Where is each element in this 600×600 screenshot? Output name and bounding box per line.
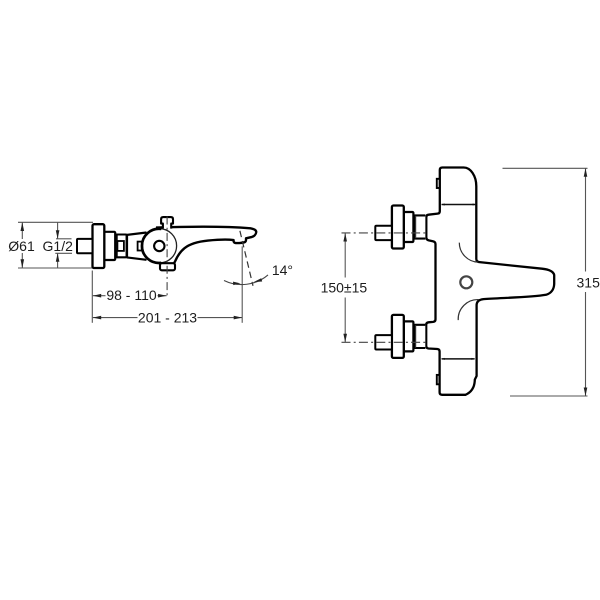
svg-text:150±15: 150±15 — [321, 279, 368, 295]
svg-text:Ø61: Ø61 — [8, 238, 35, 254]
svg-text:G1/2: G1/2 — [43, 238, 74, 254]
svg-text:315: 315 — [577, 274, 600, 290]
svg-text:201 - 213: 201 - 213 — [138, 309, 197, 325]
svg-text:14°: 14° — [272, 262, 293, 278]
svg-text:98 - 110: 98 - 110 — [106, 287, 157, 303]
